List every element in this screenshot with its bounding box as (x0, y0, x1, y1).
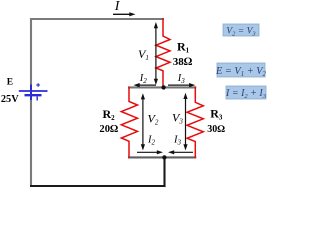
svg-text:V3: V3 (172, 111, 183, 126)
arrow V1 (double headed) (154, 22, 158, 85)
wire: left vertical above battery (30, 18, 32, 86)
wire: inner loop bottom horizontal (128, 156, 196, 158)
arrow V3 (double headed) (183, 93, 187, 151)
svg-text:V1: V1 (138, 47, 149, 62)
wire: top horizontal from battery to R1 (30, 18, 164, 20)
node: bottom junction dot (162, 155, 166, 159)
battery minus tick (36, 97, 38, 101)
arrow I3 top (points right) (168, 83, 195, 87)
svg-text:R2: R2 (103, 107, 116, 122)
svg-text:I: I (114, 0, 121, 14)
svg-text:38Ω: 38Ω (173, 56, 193, 68)
svg-text:V2 = V3: V2 = V3 (226, 27, 256, 38)
wire: inner loop top horizontal (128, 86, 196, 88)
svg-text:R3: R3 (210, 107, 223, 122)
svg-text:I3: I3 (173, 135, 182, 147)
wire: left vertical below battery (30, 100, 32, 188)
svg-text:20Ω: 20Ω (99, 124, 118, 135)
battery E: bottom plate (25, 94, 42, 96)
battery plus sign (36, 83, 40, 87)
equation box V2 = V3 (223, 24, 259, 36)
resistor R2 (red zigzag) (121, 87, 137, 159)
arrow V2 (double headed) (141, 93, 145, 150)
svg-text:25V: 25V (1, 94, 19, 105)
wire: vertical drop from bottom junction (163, 157, 165, 187)
arrow I2 bottom (points right) (137, 150, 163, 154)
battery E: blue wire segment through plates (30, 85, 32, 101)
resistor R3 (red zigzag) (187, 87, 203, 159)
svg-text:R1: R1 (177, 40, 190, 55)
battery E: top plate (19, 90, 48, 92)
svg-text:30Ω: 30Ω (207, 124, 225, 135)
resistor R1 (red zigzag) (156, 18, 170, 88)
arrow I3 bottom (points left) (168, 150, 193, 154)
svg-text:V2: V2 (148, 112, 159, 127)
arrow I (top current) (113, 12, 136, 16)
equation box I = I2 + I3 (226, 86, 266, 99)
wire: outer bottom horizontal (30, 185, 166, 187)
svg-text:I2: I2 (147, 135, 156, 147)
arrow I2 top (points left) (134, 83, 157, 87)
node: top junction dot (161, 85, 165, 89)
svg-text:I3: I3 (177, 73, 186, 85)
equation box E = V1 + V2 (217, 63, 265, 77)
svg-text:I2: I2 (139, 73, 148, 85)
svg-text:E: E (7, 78, 13, 88)
